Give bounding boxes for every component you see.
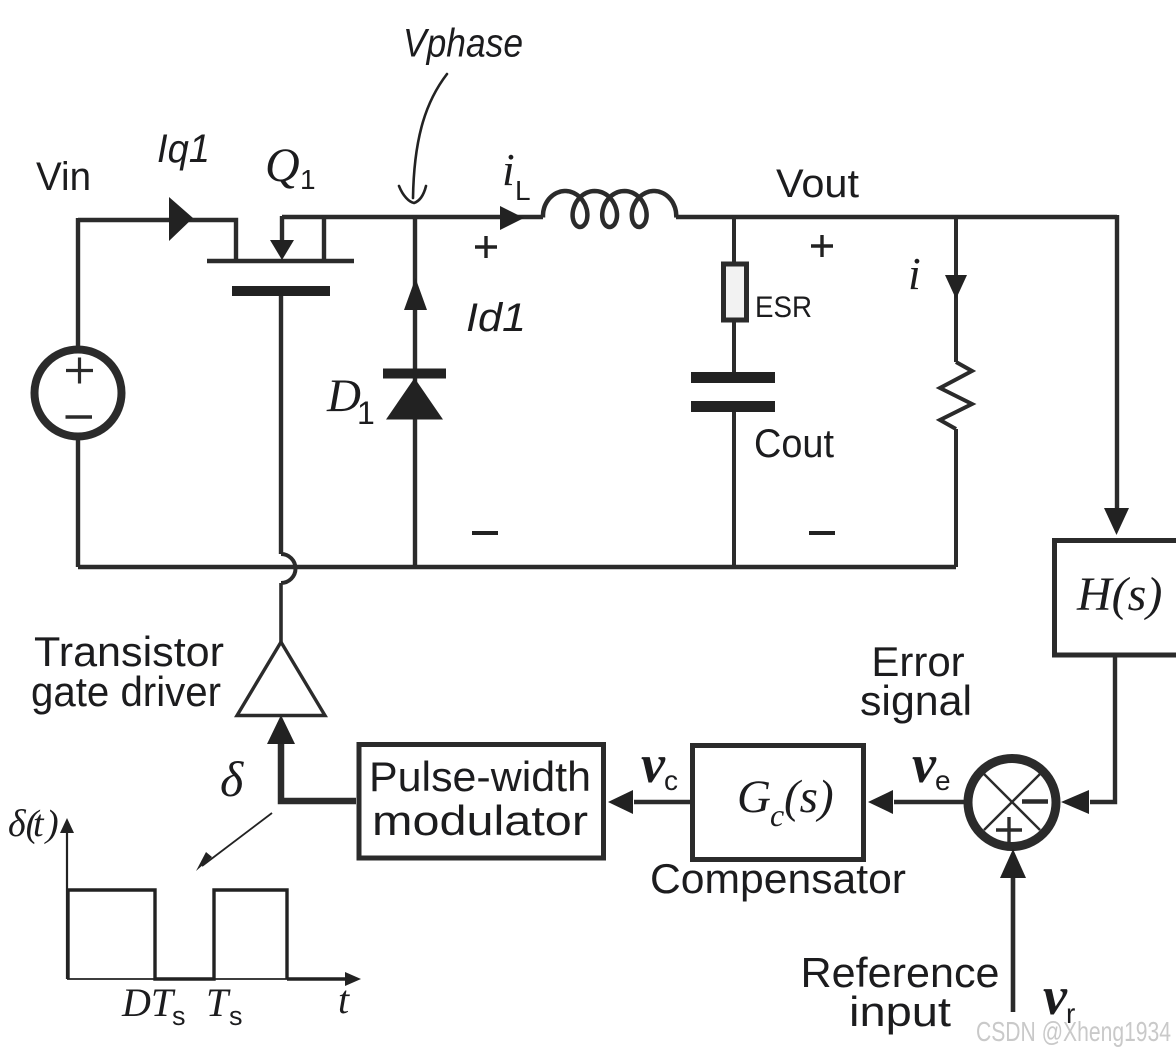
svg-text:modulator: modulator	[372, 797, 588, 844]
transistor Q1 (MOSFET)	[207, 216, 354, 296]
label vr	[1043, 966, 1075, 1029]
minus sign left	[472, 531, 498, 535]
svg-text:Id1: Id1	[466, 296, 526, 340]
svg-text:e: e	[935, 765, 951, 796]
plus sign left of inductor	[475, 236, 497, 258]
svg-text:s: s	[229, 1001, 243, 1031]
svg-text:Compensator: Compensator	[650, 855, 906, 902]
block pulse-width modulator	[359, 745, 604, 859]
svg-text:G: G	[737, 771, 771, 823]
svg-text:(s): (s)	[784, 771, 834, 823]
gate driver triangle	[237, 642, 325, 716]
label Error signal	[860, 638, 972, 724]
wire phase node to D1 branch	[413, 217, 417, 567]
wire Gc to PWM	[634, 800, 690, 804]
svg-text:ESR: ESR	[755, 291, 812, 324]
svg-text:H(s): H(s)	[1076, 568, 1162, 621]
block H(s)	[1055, 541, 1176, 656]
svg-text:T: T	[206, 980, 231, 1025]
svg-text:Pulse-width: Pulse-width	[369, 753, 591, 800]
svg-text:v: v	[912, 734, 937, 794]
svg-text:s: s	[172, 1001, 186, 1031]
wire right feedback branch	[1115, 215, 1119, 510]
svg-text:DT: DT	[121, 980, 176, 1025]
bottom rail	[78, 565, 956, 569]
current arrow Iq1	[169, 197, 193, 241]
svg-text:Vin: Vin	[36, 155, 91, 199]
svg-text:signal: signal	[860, 677, 972, 724]
svg-text:c: c	[770, 797, 784, 833]
wire Vin bottom	[76, 437, 80, 567]
minus sign right	[809, 531, 835, 535]
svg-text:1: 1	[357, 395, 375, 431]
label Gc(s)	[737, 771, 834, 833]
resistor load zigzag	[940, 362, 972, 429]
svg-text:Cout: Cout	[754, 422, 834, 466]
voltage source Vin	[35, 350, 122, 437]
label iL	[502, 144, 531, 206]
current arrow Id1	[404, 278, 427, 310]
label ve	[912, 734, 951, 796]
current arrow iL	[500, 206, 524, 230]
inductor L	[543, 191, 676, 227]
wire Vin top	[76, 218, 80, 350]
summing junction	[968, 759, 1056, 847]
pointer arrow to waveform	[196, 813, 272, 871]
wire PWM to gate driver (delta)	[281, 742, 356, 801]
svg-text:i: i	[908, 248, 921, 299]
wire top rail Vin-to-MOSFET	[78, 220, 236, 261]
label Reference input	[801, 949, 1000, 1035]
svg-text:): )	[44, 803, 59, 845]
block Gc(s) compensator	[693, 746, 864, 860]
label vc	[641, 734, 678, 796]
arrowhead into gate driver	[267, 715, 295, 744]
label Transistor gate driver	[31, 628, 224, 715]
delta(t) waveform axes	[60, 818, 361, 986]
delta(t) square wave	[68, 890, 287, 979]
svg-text:gate driver: gate driver	[31, 668, 221, 715]
arrow into H(s)	[1104, 508, 1129, 535]
arrow into summing junction right	[1061, 790, 1089, 814]
svg-text:δ: δ	[220, 751, 244, 807]
svg-text:t: t	[338, 977, 350, 1022]
Vphase pointer arrow	[399, 74, 447, 203]
svg-text:Iq1: Iq1	[157, 127, 210, 171]
wire MOSFET gate down to driver with hop	[281, 296, 296, 643]
current arrow i	[945, 275, 967, 299]
wire load branch lower	[954, 429, 958, 567]
wire summing junction to Gc	[894, 800, 968, 804]
arrowhead into Gc	[868, 790, 893, 814]
arrowhead reference input	[1000, 849, 1026, 878]
wire top rail main	[282, 215, 543, 219]
svg-text:t: t	[33, 803, 45, 845]
label DTs	[121, 980, 186, 1031]
svg-text:i: i	[502, 144, 515, 195]
label Q1	[265, 139, 316, 195]
svg-text:1: 1	[300, 164, 316, 195]
label Ts	[206, 980, 243, 1031]
plus sign Vout	[811, 235, 833, 257]
svg-text:D: D	[326, 370, 361, 422]
wire ESR to Cout	[732, 320, 736, 373]
svg-text:Vout: Vout	[776, 162, 859, 206]
wire Vout node to ESR	[732, 217, 736, 264]
capacitor Cout	[691, 372, 775, 412]
diode D1	[383, 369, 446, 420]
label Pulse-width modulator	[369, 753, 591, 844]
label delta(t)	[8, 803, 59, 845]
svg-text:v: v	[641, 734, 666, 794]
wire Cout to bottom rail	[732, 412, 736, 567]
svg-text:c: c	[664, 765, 678, 796]
resistor ESR	[724, 264, 747, 320]
arrowhead into PWM	[608, 790, 633, 814]
svg-text:Q: Q	[265, 139, 300, 192]
svg-text:input: input	[849, 988, 951, 1035]
svg-text:Vphase: Vphase	[403, 22, 523, 66]
svg-text:L: L	[515, 175, 531, 206]
reference input arrow	[1011, 878, 1016, 1012]
wire H(s) to summing junction	[1090, 657, 1115, 802]
svg-text:CSDN @Xheng1934: CSDN @Xheng1934	[976, 1016, 1171, 1047]
wire load branch upper	[954, 217, 958, 362]
label D1	[326, 370, 375, 431]
